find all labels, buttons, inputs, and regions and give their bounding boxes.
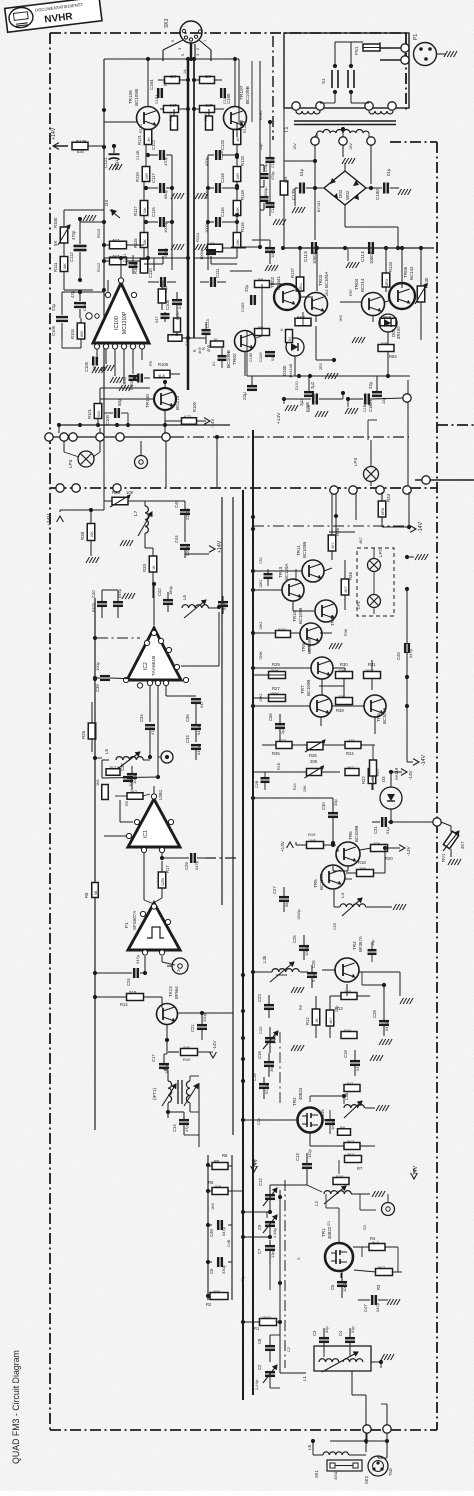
wire y425-y436 links	[59, 425, 165, 433]
resistor R103 10K	[133, 258, 148, 274]
svg-text:R100: R100	[53, 217, 58, 228]
svg-text:C1E4: C1E4	[155, 95, 159, 105]
svg-text:680p: 680p	[163, 189, 168, 199]
resistor R115 10K	[133, 216, 148, 258]
wire x284 col	[283, 108, 285, 232]
resistor R13 4K7	[326, 1006, 343, 1026]
wire left rail x104	[102, 59, 106, 436]
svg-text:019: 019	[344, 1028, 351, 1033]
svg-text:µA: µA	[162, 81, 167, 86]
svg-text:C3: C3	[312, 1330, 317, 1336]
capacitor C125 1000p	[199, 248, 216, 260]
capacitor C121 220u	[103, 144, 122, 170]
svg-text:40823: 40823	[298, 1087, 303, 1100]
wire bus x253	[252, 430, 254, 1395]
resistor R22 47K	[361, 760, 376, 790]
svg-text:TR02: TR02	[270, 276, 275, 288]
capacitor C114 1000u	[360, 242, 374, 264]
svg-text:R17: R17	[165, 865, 170, 873]
svg-text:C117: C117	[151, 173, 156, 183]
wire ladder rail right	[206, 155, 210, 270]
svg-text:R28: R28	[336, 708, 344, 713]
ground TR10	[329, 643, 342, 649]
resistor R140	[211, 338, 224, 347]
wire TR9 TR7 join	[319, 685, 344, 687]
resistor R110	[158, 280, 166, 303]
svg-text:10K: 10K	[338, 668, 345, 673]
svg-text:R38: R38	[80, 531, 85, 540]
svg-text:LP2: LP2	[378, 549, 383, 557]
transistor TR107 BC109B	[224, 85, 252, 129]
svg-text:C24: C24	[126, 978, 131, 986]
svg-text:BY164: BY164	[317, 201, 321, 212]
resistor R34 6R8	[378, 492, 391, 527]
svg-text:L4: L4	[340, 893, 345, 898]
label cluster top2	[136, 124, 247, 160]
transistor TR2 40823	[292, 1087, 323, 1132]
svg-text:R21: R21	[293, 783, 297, 790]
svg-text:C2: C2	[287, 1347, 291, 1352]
pot R26 20K	[305, 740, 325, 764]
wire dash-dot border right	[436, 142, 438, 1430]
resistor R124	[204, 109, 213, 130]
svg-text:4-46p: 4-46p	[273, 1228, 277, 1238]
resistor R33 1K	[142, 548, 157, 598]
resistor R38 10K	[80, 510, 99, 563]
label disc area	[277, 762, 307, 792]
svg-text:4n5: 4n5	[197, 347, 202, 354]
transistor TR7 BC109B	[300, 680, 332, 717]
wire ladder to bus	[232, 1190, 243, 1192]
svg-text:FS1: FS1	[354, 46, 359, 55]
filter glyph F1	[147, 927, 164, 938]
resistor R109 V48	[168, 332, 190, 341]
label cluster top1	[155, 54, 227, 104]
terminal -14V IF	[407, 706, 427, 766]
svg-text:68µ: 68µ	[117, 398, 122, 406]
capacitor C113b 01	[202, 319, 211, 344]
capacitor C48 047	[208, 1220, 232, 1237]
capacitor C113 1000u	[303, 242, 317, 264]
svg-text:C2: C2	[257, 1364, 262, 1370]
capacitor C180 01	[371, 168, 411, 200]
svg-text:R25: R25	[81, 730, 86, 739]
svg-text:C9: C9	[257, 1224, 262, 1230]
svg-text:L3b: L3b	[262, 955, 267, 963]
svg-text:3K3: 3K3	[378, 1265, 386, 1270]
node divider right	[422, 476, 430, 484]
svg-text:36p: 36p	[269, 1065, 274, 1072]
capacitor C115 1000p	[144, 207, 172, 233]
wire +14V feed	[60, 508, 104, 512]
svg-text:L1: L1	[302, 1375, 307, 1381]
resistor R104 890	[70, 318, 85, 348]
svg-text:V4B: V4B	[171, 332, 179, 337]
capacitor C51	[264, 569, 273, 586]
wire dash-dot border right upper jog	[390, 141, 437, 143]
wire dash-dot border left	[49, 33, 51, 1430]
wire bus x243	[242, 490, 244, 1400]
svg-text:TR12: TR12	[330, 614, 335, 626]
svg-text:C8: C8	[257, 1338, 262, 1344]
resistor R16 3K3	[338, 1125, 361, 1150]
svg-text:C42: C42	[157, 588, 162, 596]
svg-text:R9: R9	[258, 325, 264, 330]
svg-text:1000p: 1000p	[163, 247, 168, 259]
node divider d	[376, 486, 411, 494]
svg-text:-14V: -14V	[212, 1041, 217, 1050]
svg-text:L0B1: L0B1	[158, 789, 163, 800]
resistor R120 10R	[233, 145, 245, 182]
svg-text:10R: 10R	[236, 173, 240, 180]
svg-text:10K: 10K	[143, 207, 147, 214]
svg-text:02: 02	[210, 241, 215, 246]
svg-text:C121: C121	[103, 157, 108, 168]
svg-text:TK13: TK13	[168, 986, 173, 997]
wire top rail y59	[104, 57, 239, 61]
svg-text:R12: R12	[305, 1017, 310, 1025]
svg-text:C108: C108	[165, 299, 170, 310]
wire LP3 row	[166, 435, 219, 487]
resistor R121 1K	[137, 130, 152, 146]
svg-text:C18: C18	[307, 405, 311, 412]
trimmer C9 4-46p	[241, 1215, 277, 1239]
wire L3b bus	[251, 970, 255, 974]
svg-text:C04: C04	[82, 303, 87, 311]
resistor R183	[378, 341, 397, 359]
svg-text:RV1: RV1	[441, 853, 446, 862]
svg-text:R9: R9	[84, 892, 89, 898]
svg-text:47p: 47p	[150, 728, 155, 735]
svg-text:R9: R9	[299, 1005, 303, 1010]
node secondary left	[311, 137, 319, 145]
resistor R32 W22	[276, 628, 291, 638]
wire TR5 col	[345, 878, 352, 880]
wire ladder bus left	[206, 1155, 210, 1300]
svg-text:C1b: C1b	[257, 1118, 261, 1125]
svg-text:C1E2: C1E2	[271, 204, 275, 214]
svg-text:TR7: TR7	[300, 685, 305, 694]
capacitor C110b	[212, 348, 227, 368]
wire bus x222	[221, 497, 223, 905]
svg-text:R22: R22	[361, 776, 366, 784]
svg-text:R104: R104	[70, 328, 75, 339]
svg-text:022µ: 022µ	[264, 1084, 269, 1094]
svg-text:4L8: 4L8	[158, 373, 165, 378]
wire mains box internals	[335, 42, 380, 103]
svg-text:C110: C110	[148, 268, 153, 278]
svg-text:1000p: 1000p	[163, 221, 168, 233]
wire disc row	[253, 771, 306, 773]
pot R130	[415, 246, 434, 340]
svg-text:C49: C49	[396, 652, 401, 660]
svg-text:R108: R108	[158, 362, 169, 367]
resistor R17 1250	[155, 861, 170, 902]
resistor R128 820	[72, 139, 104, 154]
resistor R132	[380, 315, 396, 326]
NVHR documentation stamp	[5, 0, 102, 32]
wire psu left rail	[284, 108, 371, 248]
svg-text:1K: 1K	[152, 565, 156, 570]
svg-text:3: 3	[196, 54, 200, 56]
resistor R100 K22	[182, 401, 216, 428]
svg-text:TR04: TR04	[354, 278, 359, 290]
capacitor C125	[204, 139, 239, 166]
svg-text:C6: C6	[330, 1284, 335, 1290]
resistor R2	[206, 1289, 228, 1307]
svg-text:15V: 15V	[349, 143, 353, 150]
node divider b	[72, 484, 121, 492]
svg-text:R1Z2: R1Z2	[243, 124, 247, 133]
transformer IFT1	[152, 1080, 198, 1106]
capacitor C14 47p	[168, 1112, 199, 1135]
wire IC2 feeds	[102, 582, 156, 625]
svg-text:R18: R18	[336, 1174, 344, 1179]
node y436 d	[162, 433, 170, 441]
svg-text:-14V: -14V	[210, 419, 215, 428]
mains box	[284, 33, 409, 108]
wire regulator links	[301, 246, 404, 302]
svg-text:C12B: C12B	[136, 150, 140, 160]
svg-text:C27: C27	[272, 886, 277, 894]
terminal -14V R34	[409, 522, 424, 533]
wire F1 links	[143, 956, 175, 996]
resistor R22b	[370, 745, 381, 790]
wire front-end extra	[338, 1160, 340, 1174]
svg-text:TR5: TR5	[313, 879, 318, 888]
wire ladder bus right	[231, 1155, 233, 1300]
resistor R36 4K7	[341, 560, 353, 610]
svg-text:100p: 100p	[330, 1120, 335, 1130]
jack TP2	[158, 751, 173, 763]
svg-text:R20: R20	[385, 856, 393, 861]
svg-text:33p: 33p	[350, 1326, 355, 1333]
svg-text:22p: 22p	[335, 1006, 339, 1012]
svg-text:2K2: 2K2	[325, 289, 329, 296]
transistor TR02 BC441	[270, 276, 300, 310]
svg-text:L6: L6	[182, 595, 187, 600]
svg-text:C102: C102	[123, 377, 127, 386]
transistor TR13b BF564	[157, 986, 180, 1025]
svg-text:6B: 6B	[94, 890, 98, 895]
resistor R107	[174, 311, 181, 332]
svg-text:R1Z1: R1Z1	[139, 124, 143, 133]
svg-text:P1: P1	[413, 34, 419, 40]
wire mid links2	[230, 240, 278, 271]
resistor R131 6K8	[295, 315, 311, 326]
wire bottom bus links	[270, 1190, 306, 1373]
svg-text:C44: C44	[174, 535, 179, 543]
ground pins IC100	[101, 365, 132, 391]
wire bridge bottom	[345, 205, 400, 250]
capacitor C25 1000p	[292, 935, 309, 960]
svg-text:22µ: 22µ	[244, 284, 249, 292]
svg-text:TR1: TR1	[321, 1228, 326, 1237]
svg-text:1M: 1M	[170, 74, 176, 79]
svg-text:47p: 47p	[184, 1125, 189, 1132]
svg-text:047µ: 047µ	[221, 1226, 226, 1236]
svg-text:R7: R7	[357, 1166, 363, 1171]
resistor R126 1M	[194, 74, 222, 84]
svg-text:R111: R111	[53, 262, 58, 272]
DIN socket SK3	[164, 18, 207, 50]
transformer T1 secondary	[317, 127, 369, 133]
capacitor C42 180p	[157, 585, 173, 612]
svg-text:G1: G1	[327, 1221, 331, 1226]
wire lamps box	[357, 548, 394, 616]
wire dash-dot stub right	[437, 424, 474, 426]
svg-text:R25: R25	[272, 751, 280, 756]
svg-text:D4: D4	[104, 200, 109, 206]
capacitor C111	[123, 253, 138, 274]
svg-text:R130: R130	[424, 277, 429, 288]
svg-text:ZR100: ZR100	[396, 326, 401, 339]
svg-text:R115: R115	[133, 238, 138, 248]
svg-text:C1E5: C1E5	[223, 95, 227, 105]
wire TR6 emitter	[333, 866, 348, 871]
svg-text:R2: R2	[206, 1302, 212, 1307]
label trim bottom	[255, 1347, 291, 1390]
op-amp IC100 base pins	[94, 344, 144, 349]
transistor TR5 BC109B	[313, 865, 345, 890]
svg-text:2K2: 2K2	[109, 765, 117, 770]
capacitor C165	[221, 88, 231, 104]
resistor R31 150K	[364, 662, 381, 679]
label T1 sec	[293, 143, 353, 150]
zener D01 ZR5.6	[379, 314, 401, 339]
transistor TR8 BC109B	[364, 695, 387, 724]
svg-text:2µ2: 2µ2	[310, 381, 315, 389]
resistor R23b 4K7	[345, 766, 359, 776]
svg-text:470p: 470p	[271, 172, 275, 180]
wire IC2 pin stubs	[150, 605, 221, 778]
capacitor C47a	[113, 588, 135, 618]
svg-text:C4: C4	[338, 1330, 343, 1336]
capacitor C106	[51, 292, 68, 340]
wire stub x133	[123, 368, 138, 386]
svg-text:20K: 20K	[303, 785, 307, 792]
inductor L6	[168, 595, 218, 618]
capacitor C15 100p	[320, 1109, 335, 1134]
svg-text:4K7: 4K7	[205, 103, 213, 108]
svg-text:1K0: 1K0	[344, 989, 352, 994]
transformer T1 core	[284, 121, 396, 133]
capacitor C23	[257, 994, 274, 1018]
svg-text:1000p: 1000p	[204, 221, 209, 233]
svg-text:1K8: 1K8	[96, 780, 100, 786]
wire dash-dot border bottom	[50, 1429, 437, 1431]
svg-text:6R8: 6R8	[381, 508, 385, 515]
resistor R137	[280, 177, 288, 195]
svg-text:BC441: BC441	[276, 276, 281, 290]
wire IC1 feeds	[104, 786, 162, 904]
svg-text:R83: R83	[389, 354, 397, 359]
capacitor C117 680p	[144, 173, 172, 199]
pin F1 edges	[140, 904, 170, 955]
svg-text:C111: C111	[123, 253, 127, 262]
svg-text:470p: 470p	[163, 156, 168, 166]
label mid psu	[259, 111, 275, 181]
wire pot area	[64, 210, 106, 290]
svg-text:01µ: 01µ	[386, 168, 391, 176]
wire IC100 pin stubs	[97, 349, 142, 384]
resistor R12 1K	[305, 1009, 320, 1025]
svg-text:F1: F1	[124, 922, 130, 928]
svg-text:+14V: +14V	[280, 840, 285, 852]
capacitor C30 33p	[251, 796, 338, 845]
svg-text:C122: C122	[151, 139, 156, 150]
svg-text:5K: 5K	[53, 241, 58, 246]
transistor TR9 BC109B	[301, 638, 333, 679]
inductor L2	[314, 1186, 385, 1206]
svg-text:2: 2	[196, 48, 200, 50]
svg-text:D100: D100	[282, 365, 287, 376]
resistor R108	[154, 362, 180, 378]
svg-text:10K1: 10K1	[259, 693, 263, 702]
svg-text:C113: C113	[206, 319, 210, 328]
svg-text:BF357A: BF357A	[358, 936, 363, 952]
svg-text:K22: K22	[184, 414, 192, 419]
svg-text:TR9: TR9	[301, 643, 306, 652]
svg-text:1K5: 1K5	[211, 1203, 215, 1210]
op-amp IC100 MC1310P	[93, 283, 149, 343]
capacitor C8	[257, 1335, 280, 1362]
svg-text:BC109B: BC109B	[245, 86, 251, 104]
wire TR2 top	[241, 973, 346, 1104]
node antenna b	[383, 1425, 391, 1433]
capacitor C25b 10p	[368, 942, 377, 962]
transistor TR11 BC109B	[296, 542, 324, 582]
svg-text:68p: 68p	[284, 900, 289, 907]
svg-text:1000p: 1000p	[342, 1280, 347, 1292]
svg-text:R2: R2	[124, 800, 129, 806]
wire dash-dot border top-right	[405, 33, 407, 110]
capacitor C35 047	[185, 704, 201, 742]
svg-text:6K8: 6K8	[297, 315, 305, 320]
svg-text:R9: R9	[340, 1125, 346, 1130]
resistor R14 01E	[93, 990, 162, 1007]
svg-text:047: 047	[154, 316, 159, 323]
inductor L7	[133, 501, 152, 548]
svg-text:TR6: TR6	[348, 831, 353, 840]
resistor R35 4K7	[328, 494, 340, 560]
resistor R117 10K	[133, 182, 148, 216]
wire dash-dot divider	[50, 487, 437, 489]
svg-text:BC109B: BC109B	[382, 708, 387, 724]
capacitor C32b 100p	[116, 766, 133, 787]
svg-text:01µ: 01µ	[177, 302, 182, 309]
transistor TR13 BC109A	[278, 564, 304, 601]
wire ladder bottom right	[231, 245, 262, 258]
wire ladder links	[208, 1166, 232, 1191]
svg-text:5: 5	[181, 54, 185, 56]
resistor R105a 4K7	[160, 103, 190, 113]
svg-text:R121: R121	[137, 134, 142, 145]
wire reg verticals	[245, 315, 388, 376]
svg-text:C56: C56	[268, 713, 273, 721]
label K 4n5	[201, 344, 211, 352]
capacitor C120 1000p	[158, 247, 168, 259]
lamp LP1	[356, 595, 381, 610]
wire TR2 links	[241, 1118, 375, 1146]
svg-text:1M: 1M	[205, 74, 211, 79]
jack M1	[382, 1194, 395, 1216]
pot R21 20K	[296, 766, 340, 778]
wire TR4 area	[316, 970, 413, 1038]
svg-text:R1E: R1E	[277, 762, 281, 770]
svg-text:4K7: 4K7	[359, 537, 363, 544]
svg-text:R120: R120	[240, 155, 245, 166]
